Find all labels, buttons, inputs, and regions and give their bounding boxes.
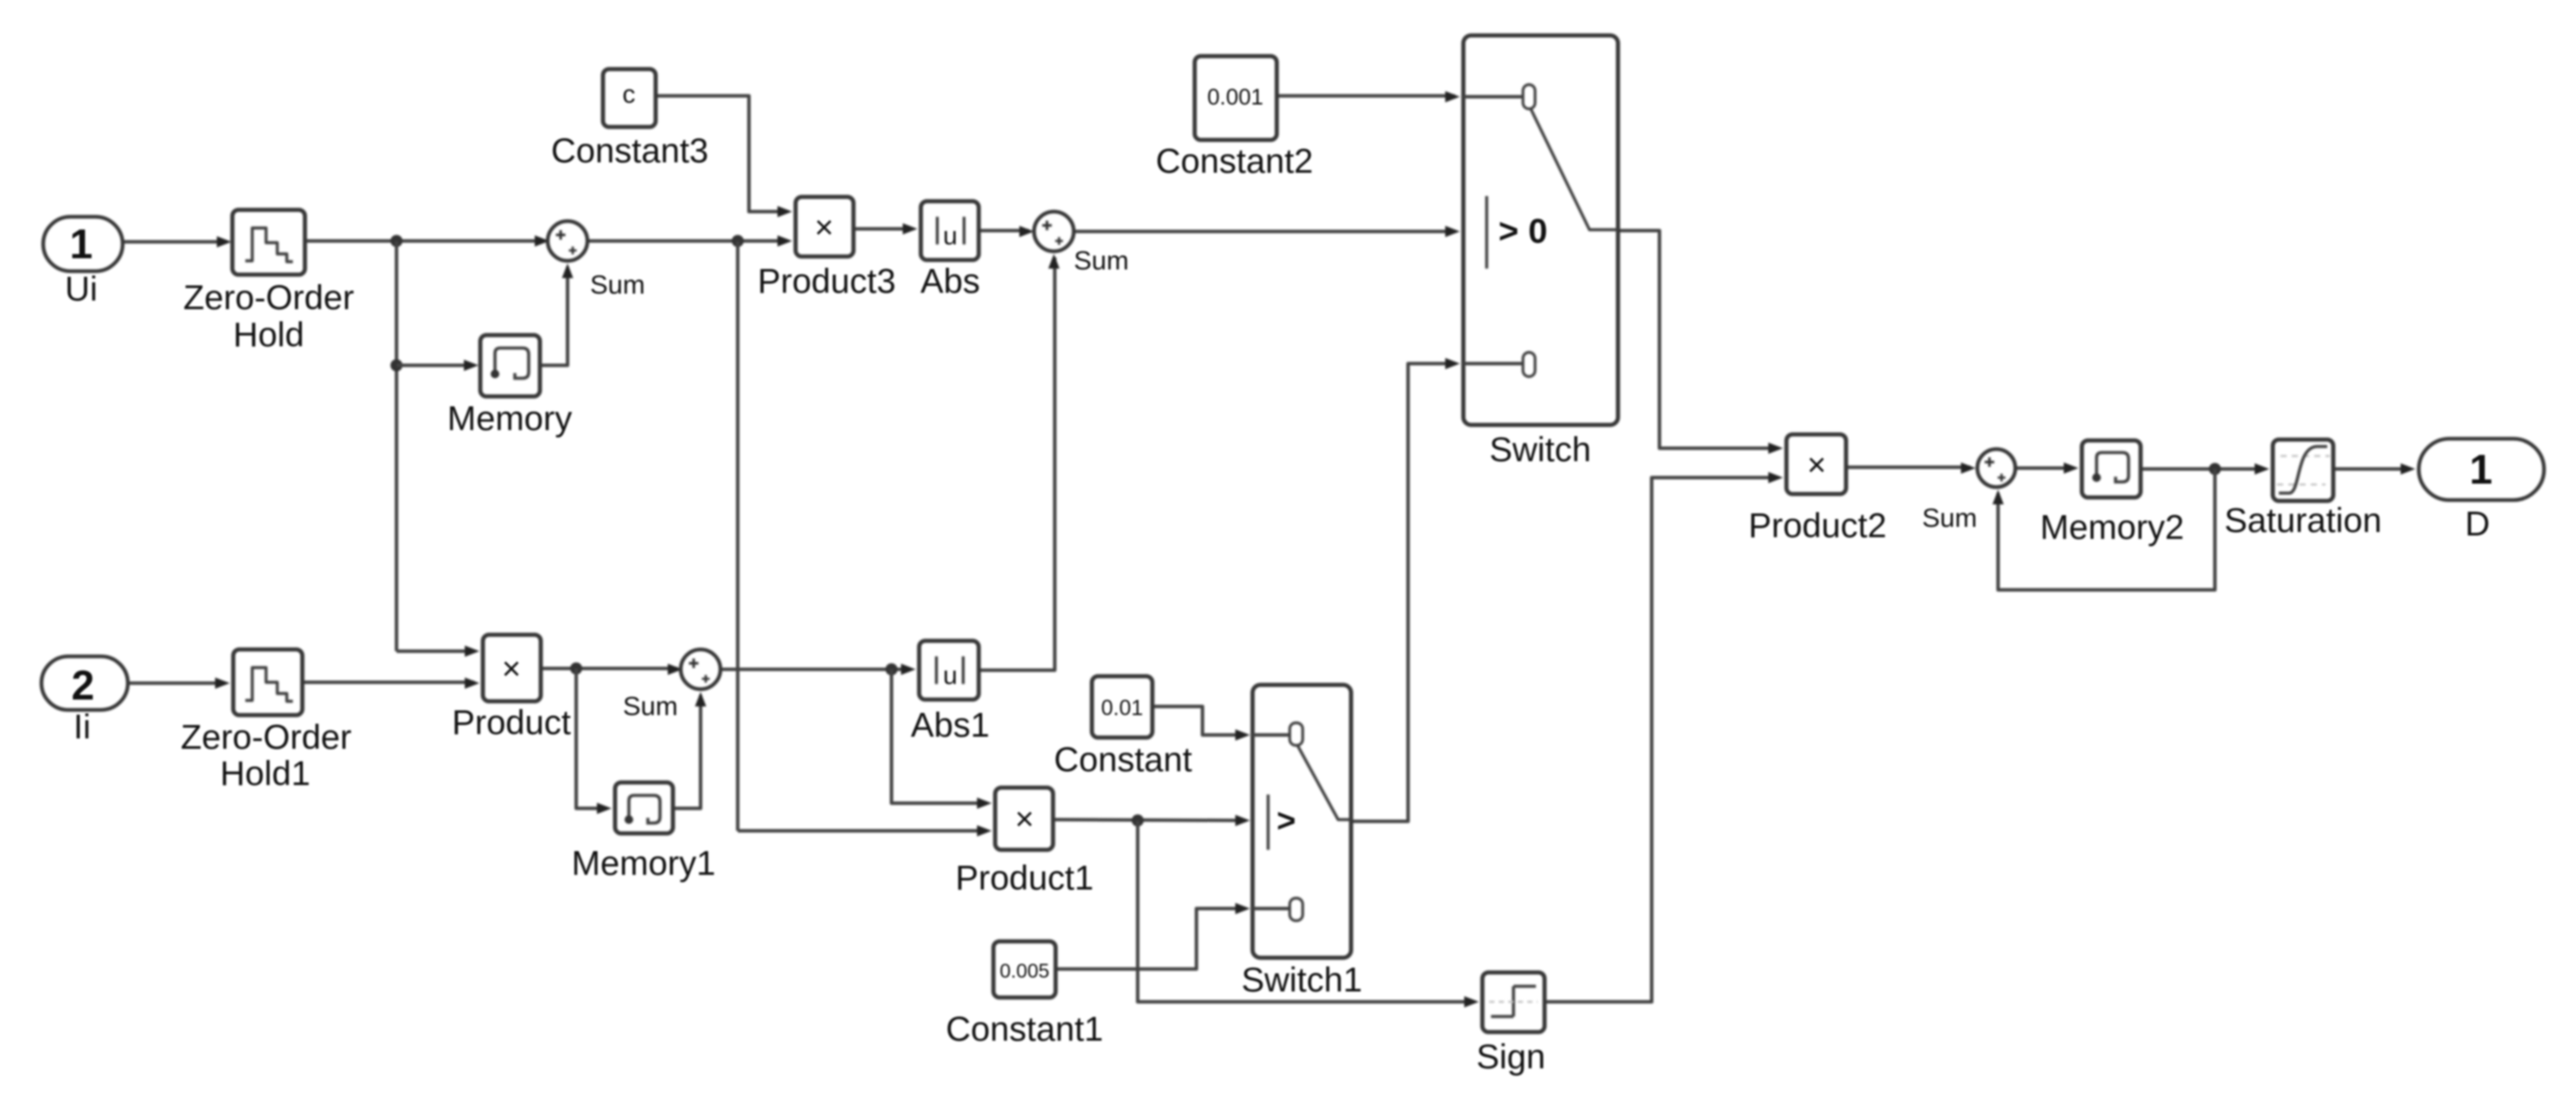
svg-text:c: c (623, 80, 636, 109)
svg-text:Switch1: Switch1 (1241, 961, 1362, 999)
svg-text:1: 1 (2470, 447, 2493, 493)
svg-text:Zero-Order: Zero-Order (183, 279, 354, 317)
svg-text:0.001: 0.001 (1207, 84, 1263, 110)
svg-text:Product: Product (452, 704, 571, 742)
svg-text:Sum: Sum (1074, 245, 1129, 275)
svg-text:Memory: Memory (447, 400, 572, 438)
svg-text:Switch: Switch (1489, 431, 1591, 469)
svg-text:×: × (815, 210, 834, 246)
svg-text:×: × (502, 651, 521, 687)
svg-text:D: D (2465, 505, 2490, 543)
svg-text:Memory1: Memory1 (572, 845, 716, 883)
svg-text:Sum: Sum (1922, 503, 1977, 533)
svg-text:Product3: Product3 (758, 263, 896, 301)
svg-text:Product1: Product1 (955, 859, 1094, 897)
svg-text:0.005: 0.005 (999, 959, 1050, 982)
svg-text:> 0: > 0 (1499, 212, 1548, 250)
svg-text:u: u (943, 662, 958, 690)
svg-text:Hold1: Hold1 (220, 755, 311, 793)
svg-text:Constant: Constant (1054, 741, 1192, 779)
svg-text:×: × (1015, 801, 1034, 838)
svg-text:Zero-Order: Zero-Order (181, 719, 352, 757)
svg-text:Constant3: Constant3 (551, 132, 708, 170)
svg-text:u: u (943, 222, 958, 250)
svg-text:×: × (1807, 447, 1826, 484)
svg-text:Ui: Ui (65, 270, 98, 308)
svg-text:Memory2: Memory2 (2040, 509, 2185, 547)
svg-text:2: 2 (72, 663, 95, 709)
svg-text:Abs: Abs (921, 263, 980, 301)
svg-text:>: > (1277, 803, 1296, 839)
svg-text:Ii: Ii (73, 708, 91, 746)
svg-text:Abs1: Abs1 (910, 706, 989, 744)
svg-text:Saturation: Saturation (2224, 502, 2382, 540)
svg-text:0.01: 0.01 (1101, 696, 1144, 720)
svg-text:Hold: Hold (233, 316, 304, 354)
svg-text:Constant2: Constant2 (1156, 142, 1313, 180)
svg-text:1: 1 (70, 222, 93, 268)
svg-text:Sign: Sign (1476, 1038, 1545, 1076)
svg-text:Constant1: Constant1 (946, 1010, 1103, 1048)
svg-text:Product2: Product2 (1748, 507, 1887, 545)
svg-text:Sum: Sum (590, 269, 645, 300)
svg-text:Sum: Sum (623, 691, 678, 721)
